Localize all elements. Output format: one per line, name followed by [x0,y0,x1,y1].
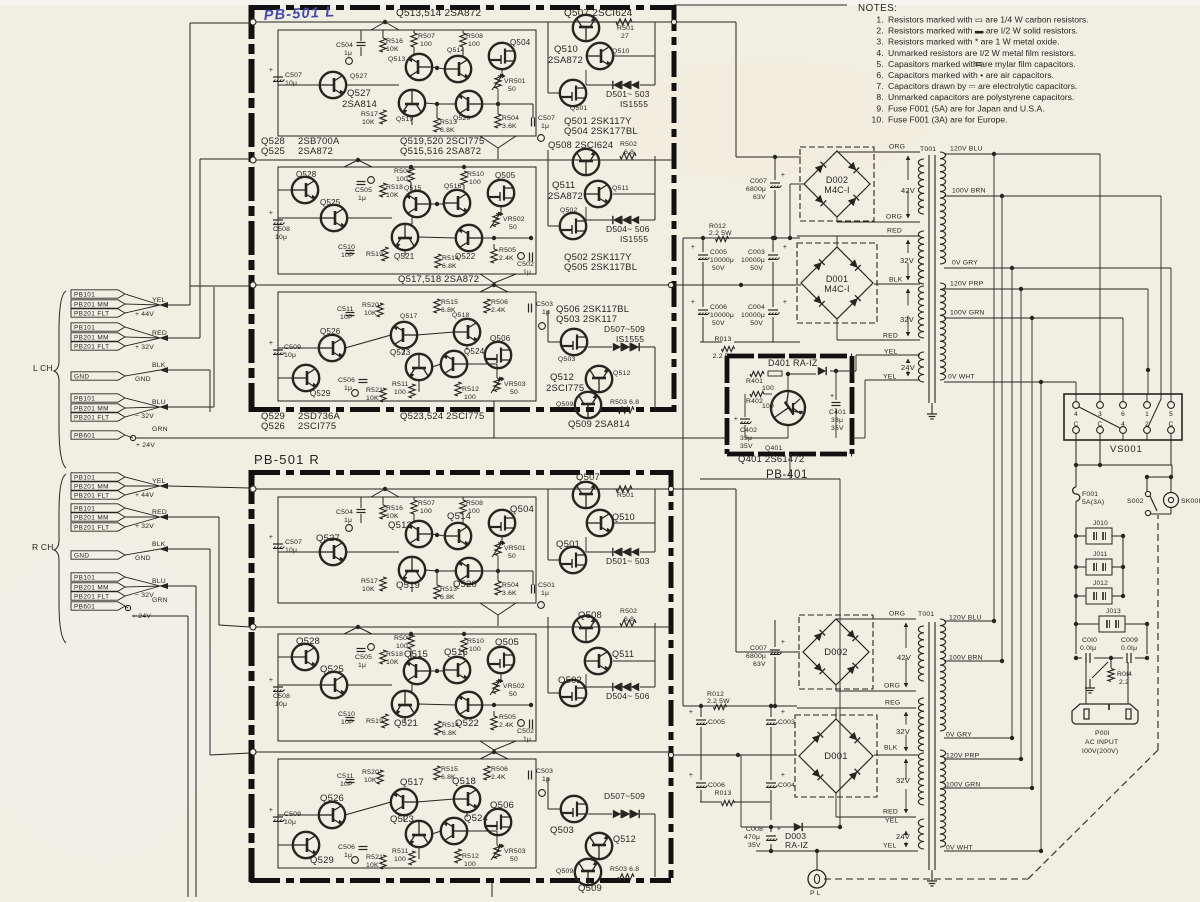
svg-text:R512: R512 [462,853,479,860]
svg-text:I00V(200V): I00V(200V) [1082,748,1118,755]
svg-text:2SA872: 2SA872 [548,55,583,66]
svg-text:YEL: YEL [883,374,896,381]
svg-text:YEL: YEL [885,818,898,825]
svg-text:VR503: VR503 [504,848,526,855]
svg-text:Q505: Q505 [495,171,516,180]
svg-text:Resistors marked with ▭ are 1/: Resistors marked with ▭ are 1/4 W carbon… [888,15,1089,25]
svg-text:50V: 50V [712,265,725,272]
svg-text:Q503: Q503 [558,356,575,363]
svg-text:10P: 10P [340,781,353,788]
svg-text:10000μ: 10000μ [741,312,765,319]
svg-text:+ 44V: + 44V [135,311,154,318]
svg-text:10K: 10K [386,46,399,53]
svg-text:R505: R505 [499,247,516,254]
svg-text:GND: GND [135,376,151,383]
svg-text:2.: 2. [876,26,884,36]
svg-text:1μ: 1μ [344,852,352,859]
svg-text:100: 100 [469,179,481,186]
svg-text:10K: 10K [362,119,375,126]
svg-text:2SCI775: 2SCI775 [298,421,336,432]
svg-text:R517: R517 [361,578,378,585]
svg-text:10μ: 10μ [285,80,297,87]
svg-text:PB201 MM: PB201 MM [74,302,109,309]
svg-text:100: 100 [396,176,408,183]
svg-text:+: + [269,534,273,541]
svg-text:+ 32V: + 32V [135,523,154,530]
svg-text:Q511: Q511 [612,649,634,659]
svg-text:10K: 10K [364,777,377,784]
svg-text:BLK: BLK [889,277,903,284]
svg-text:IS1555: IS1555 [620,234,648,244]
svg-text:PB201 FLT: PB201 FLT [74,594,109,601]
svg-text:R504: R504 [502,115,519,122]
svg-text:YEL: YEL [152,478,165,485]
svg-text:Q525: Q525 [261,146,285,157]
svg-text:R518: R518 [386,184,403,191]
svg-text:Q527: Q527 [350,73,367,80]
svg-text:D001: D001 [826,274,848,284]
svg-text:Q511: Q511 [612,185,629,192]
svg-text:D507~509: D507~509 [604,791,645,801]
svg-text:R507: R507 [418,500,435,507]
svg-text:PB201 MM: PB201 MM [74,406,109,413]
svg-text:PB201 MM: PB201 MM [74,515,109,522]
svg-text:D002: D002 [826,175,848,185]
svg-text:Q501: Q501 [556,539,580,550]
svg-text:Q529: Q529 [310,389,331,398]
svg-text:6.8K: 6.8K [442,263,457,270]
svg-text:100: 100 [464,394,476,401]
svg-text:C: C [1169,421,1174,428]
svg-text:0V WHT: 0V WHT [948,374,975,381]
svg-text:1μ: 1μ [542,309,550,316]
svg-text:PB-501 R: PB-501 R [254,452,320,467]
svg-text:D504~ 506: D504~ 506 [606,691,650,701]
svg-text:9.: 9. [876,103,884,113]
svg-text:BLK: BLK [152,541,166,548]
svg-text:GND: GND [74,553,89,560]
svg-text:Q512: Q512 [613,370,630,377]
svg-text:BLK: BLK [152,362,166,369]
svg-text:Q525: Q525 [320,664,344,675]
svg-text:5: 5 [1169,411,1173,418]
svg-text:C003: C003 [778,719,795,726]
svg-text:Q527: Q527 [347,88,371,99]
svg-text:R516: R516 [386,505,403,512]
svg-text:BLU: BLU [152,578,166,585]
svg-text:6.8K: 6.8K [440,127,455,134]
svg-text:PB101: PB101 [74,396,95,403]
svg-text:PB101: PB101 [74,292,95,299]
svg-text:R501: R501 [617,492,634,499]
svg-text:6800μ: 6800μ [746,186,766,193]
svg-text:5A(3A): 5A(3A) [1082,499,1104,506]
svg-text:+: + [830,393,834,400]
svg-text:R0I4: R0I4 [1117,671,1132,678]
svg-text:Q517: Q517 [400,313,417,320]
svg-text:BLK: BLK [884,745,898,752]
svg-text:RED: RED [883,809,898,816]
svg-text:D507~509: D507~509 [604,324,645,334]
svg-text:10μ: 10μ [275,701,287,708]
svg-text:10μ: 10μ [284,819,296,826]
svg-text:1μ: 1μ [523,736,531,743]
svg-text:J011: J011 [1093,551,1108,558]
svg-text:0.0Iμ: 0.0Iμ [1121,645,1137,652]
svg-text:RED: RED [152,330,167,337]
svg-text:32V: 32V [900,315,914,324]
svg-text:C507: C507 [538,115,555,122]
svg-text:10μ: 10μ [275,234,287,241]
svg-text:C505: C505 [355,654,372,661]
svg-text:ORG: ORG [884,683,900,690]
svg-text:C503: C503 [536,768,553,775]
svg-text:24V: 24V [896,832,910,841]
svg-text:R521: R521 [366,854,383,861]
svg-text:R520: R520 [362,302,379,309]
svg-text:RA-IZ: RA-IZ [785,840,808,850]
svg-text:1μ: 1μ [358,195,366,202]
svg-text:C003: C003 [748,249,765,256]
svg-text:6800μ: 6800μ [746,653,766,660]
svg-text:VS001: VS001 [1110,444,1143,455]
svg-text:C: C [1098,421,1103,428]
svg-text:6.: 6. [876,70,884,80]
svg-text:1μ: 1μ [344,517,352,524]
svg-text:R505: R505 [499,714,516,721]
svg-text:1μ: 1μ [541,590,549,597]
svg-text:Q510: Q510 [554,44,578,55]
svg-text:Q526: Q526 [320,327,341,336]
svg-text:T001: T001 [918,611,934,618]
svg-text:R520: R520 [362,769,379,776]
svg-text:C508: C508 [273,226,290,233]
svg-text:R517: R517 [361,111,378,118]
svg-text:R510: R510 [467,638,484,645]
svg-text:R503 6.8: R503 6.8 [610,866,639,873]
svg-text:Q515,516 2SA872: Q515,516 2SA872 [400,146,481,157]
svg-text:Capacitors marked with • are a: Capacitors marked with • are air capacit… [888,70,1054,80]
svg-text:+: + [691,299,695,306]
svg-text:10K: 10K [366,862,379,869]
svg-text:R504: R504 [502,582,519,589]
svg-text:10.: 10. [871,114,884,124]
svg-text:R509: R509 [394,635,411,642]
svg-text:Q521: Q521 [394,252,415,261]
svg-text:100V GRN: 100V GRN [946,782,980,789]
svg-text:1μ: 1μ [542,776,550,783]
svg-text:3.6K: 3.6K [502,590,517,597]
svg-text:C503: C503 [536,301,553,308]
svg-text:470μ: 470μ [744,834,760,841]
svg-text:Q503 2SK117: Q503 2SK117 [556,314,617,325]
svg-text:10000μ: 10000μ [710,257,734,264]
svg-text:50: 50 [510,389,518,396]
svg-text:Q523: Q523 [390,348,411,357]
svg-text:R502: R502 [620,608,637,615]
svg-text:100V GRN: 100V GRN [950,310,984,317]
svg-text:10K: 10K [364,310,377,317]
svg-text:R402: R402 [746,398,763,405]
svg-text:C510: C510 [338,711,355,718]
svg-text:D501~ 503: D501~ 503 [606,556,650,566]
svg-text:Q504: Q504 [510,504,534,515]
svg-text:100: 100 [394,856,406,863]
svg-text:100: 100 [394,389,406,396]
svg-text:10P: 10P [341,719,354,726]
svg-text:PB201 MM: PB201 MM [74,335,109,342]
svg-text:2SA872: 2SA872 [298,146,333,157]
svg-text:VR501: VR501 [504,545,526,552]
svg-text:Q508: Q508 [578,610,602,621]
svg-text:Unmarked capacitors are polyst: Unmarked capacitors are polystyrene capa… [888,92,1074,102]
svg-text:Q526: Q526 [261,421,285,432]
svg-text:Q512: Q512 [550,372,574,383]
svg-text:0V WHT: 0V WHT [946,845,973,852]
svg-text:R013: R013 [714,790,731,797]
svg-text:C007: C007 [750,178,767,185]
svg-text:50: 50 [509,224,517,231]
svg-text:10K: 10K [386,513,399,520]
svg-text:C: C [1074,421,1079,428]
svg-text:C505: C505 [355,187,372,194]
svg-text:R511: R511 [392,381,409,388]
svg-text:D002: D002 [824,647,848,658]
svg-text:R515: R515 [441,299,458,306]
svg-text:50: 50 [509,691,517,698]
svg-text:R502: R502 [620,141,637,148]
svg-text:1μ: 1μ [344,50,352,57]
svg-text:Q513,514 2SA872: Q513,514 2SA872 [396,8,482,19]
svg-text:S002: S002 [1127,498,1144,505]
svg-text:1μ: 1μ [344,385,352,392]
svg-text:VR503: VR503 [504,381,526,388]
svg-text:C401: C401 [829,409,846,416]
svg-text:50: 50 [510,856,518,863]
svg-text:Q505 2SK117BL: Q505 2SK117BL [564,262,637,273]
svg-text:6.8K: 6.8K [442,730,457,737]
svg-text:C005: C005 [708,719,725,726]
svg-text:R519: R519 [366,251,383,258]
svg-text:100: 100 [420,41,432,48]
svg-text:ORG: ORG [886,214,902,221]
svg-text:Q523: Q523 [390,814,414,825]
svg-text:100: 100 [468,41,480,48]
svg-text:Q508 2SCI624: Q508 2SCI624 [548,140,613,151]
svg-text:R514: R514 [442,255,459,262]
svg-text:+: + [781,639,785,646]
svg-text:10000μ: 10000μ [710,312,734,319]
svg-text:D401 RA-IZ: D401 RA-IZ [768,358,818,368]
svg-text:R514: R514 [442,722,459,729]
svg-text:1μ: 1μ [358,662,366,669]
svg-text:R519: R519 [366,718,383,725]
svg-text:3.6K: 3.6K [502,123,517,130]
svg-text:C005: C005 [710,249,727,256]
svg-text:R512: R512 [462,386,479,393]
svg-text:Q519: Q519 [396,580,420,591]
svg-text:Fuse F001 (5A) are for Japan a: Fuse F001 (5A) are for Japan and U.S.A. [888,103,1045,113]
svg-text:D504~ 506: D504~ 506 [606,224,650,234]
svg-text:BLU: BLU [152,399,166,406]
svg-text:Q510: Q510 [612,512,635,522]
svg-text:+: + [269,677,273,684]
svg-text:+: + [689,772,693,779]
svg-text:C507: C507 [285,72,302,79]
svg-text:Fuse F001 (3A) are for Europe.: Fuse F001 (3A) are for Europe. [888,114,1007,124]
svg-text:100: 100 [420,508,432,515]
svg-text:− 32V: − 32V [135,413,154,420]
svg-text:C507: C507 [285,539,302,546]
svg-text:Q514: Q514 [447,511,471,522]
svg-text:Capasitors marked with are m: Capasitors marked with are mylar film ca… [888,59,1076,69]
svg-text:PB201 MM: PB201 MM [74,585,109,592]
svg-text:63V: 63V [753,194,766,201]
svg-text:GRN: GRN [152,597,168,604]
svg-text:PB101: PB101 [74,475,95,482]
svg-text:Q527: Q527 [316,533,340,544]
svg-text:NOTES:: NOTES: [858,3,897,14]
svg-text:Q528: Q528 [296,636,320,647]
svg-text:R508: R508 [466,500,483,507]
svg-text:C501: C501 [538,582,555,589]
svg-text:Q523,524 2SCI775: Q523,524 2SCI775 [400,411,485,422]
svg-text:Q506: Q506 [490,800,514,811]
svg-text:PB601: PB601 [74,604,95,611]
svg-text:2.2 5W: 2.2 5W [709,230,732,237]
svg-text:+: + [734,416,738,423]
svg-text:Q505: Q505 [495,637,519,648]
svg-text:YEL: YEL [883,843,896,850]
svg-text:T001: T001 [920,146,936,153]
svg-text:Q514: Q514 [447,47,464,54]
svg-text:+ 24V: + 24V [136,442,155,449]
svg-text:50: 50 [508,86,516,93]
svg-text:1: 1 [1145,411,1149,418]
svg-text:R508: R508 [466,33,483,40]
svg-text:M4C-I: M4C-I [824,284,850,294]
svg-text:50V: 50V [750,320,763,327]
svg-text:1.: 1. [876,15,884,25]
svg-text:C510: C510 [338,244,355,251]
svg-text:REG: REG [885,700,900,707]
svg-text:R012: R012 [707,691,724,698]
svg-text:Q509: Q509 [556,868,573,875]
svg-text:120V PRP: 120V PRP [950,281,984,288]
svg-text:GND: GND [135,555,151,562]
svg-text:2.4K: 2.4K [491,307,506,314]
svg-text:C402: C402 [740,427,757,434]
svg-text:PB101: PB101 [74,575,95,582]
svg-text:+: + [781,772,785,779]
svg-text:0.0Iμ: 0.0Iμ [1080,645,1096,652]
svg-text:10P: 10P [341,252,354,259]
svg-text:R513: R513 [440,119,457,126]
svg-text:27: 27 [621,33,629,40]
svg-text:7.: 7. [876,81,884,91]
svg-text:J012: J012 [1093,580,1108,587]
svg-text:2.4K: 2.4K [491,774,506,781]
svg-text:IS1555: IS1555 [616,334,644,344]
svg-text:Q529: Q529 [310,855,334,866]
svg-text:AC INPUT: AC INPUT [1085,739,1118,746]
svg-text:+: + [689,709,693,716]
svg-text:GND: GND [74,374,89,381]
svg-text:RED: RED [887,228,902,235]
svg-text:P00I: P00I [1095,730,1110,737]
svg-text:10K: 10K [366,395,379,402]
svg-text:R501: R501 [617,25,634,32]
svg-text:35V: 35V [740,443,753,450]
svg-text:PB601: PB601 [74,433,95,440]
svg-text:Q509 2SA814: Q509 2SA814 [568,419,630,430]
svg-text:GRN: GRN [152,426,168,433]
svg-text:4.: 4. [876,48,884,58]
svg-text:3.: 3. [876,37,884,47]
svg-text:33μ: 33μ [740,435,752,442]
svg-text:R515: R515 [441,766,458,773]
svg-text:C006: C006 [708,782,725,789]
svg-text:50: 50 [508,553,516,560]
svg-text:6.8: 6.8 [624,149,634,156]
svg-text:R518: R518 [386,651,403,658]
svg-text:10μ: 10μ [285,547,297,554]
svg-text:0V GRY: 0V GRY [952,260,978,267]
svg-text:6.8: 6.8 [624,616,634,623]
svg-text:120V BLU: 120V BLU [950,146,983,153]
svg-text:Q525: Q525 [320,198,341,207]
svg-text:Q502: Q502 [558,675,582,686]
svg-text:RED: RED [883,333,898,340]
svg-text:Q507: Q507 [576,472,600,483]
svg-text:C506: C506 [338,844,355,851]
svg-text:Q503: Q503 [550,825,574,836]
svg-text:R507: R507 [418,33,435,40]
svg-text:R521: R521 [366,387,383,394]
svg-text:J010: J010 [1093,520,1108,527]
svg-text:10K: 10K [386,659,399,666]
svg-text:F001: F001 [1082,491,1098,498]
svg-text:Q504 2SK177BL: Q504 2SK177BL [564,126,638,137]
svg-text:P L: P L [810,890,821,897]
svg-text:Resistors marked with * are 1: Resistors marked with * are 1 W metal ox… [888,37,1059,47]
svg-text:YEL: YEL [152,297,165,304]
svg-text:C511: C511 [337,306,354,313]
svg-text:Unmarked resistors are I/2 W m: Unmarked resistors are I/2 W metal film … [888,48,1076,58]
svg-text:J013: J013 [1106,608,1121,615]
svg-text:100V BRN: 100V BRN [949,655,983,662]
svg-text:Q521: Q521 [394,718,418,729]
svg-text:PB101: PB101 [74,506,95,513]
svg-text:C0I0: C0I0 [1082,637,1097,644]
svg-text:Q513: Q513 [388,56,405,63]
svg-text:C502: C502 [517,728,534,735]
svg-text:Q510: Q510 [612,48,629,55]
svg-text:8.: 8. [876,92,884,102]
svg-text:Q517: Q517 [400,777,424,788]
svg-text:PB201 FLT: PB201 FLT [74,311,109,318]
svg-text:+: + [781,709,785,716]
svg-text:100: 100 [762,385,774,392]
svg-text:Q502: Q502 [560,207,577,214]
svg-text:VR502: VR502 [503,683,525,690]
svg-text:C508: C508 [273,693,290,700]
svg-text:R510: R510 [467,171,484,178]
svg-text:Q401: Q401 [765,445,782,452]
svg-text:Capacitors drawn by ⎓ are elec: Capacitors drawn by ⎓ are electrolytic c… [888,81,1077,91]
svg-text:1μ: 1μ [541,123,549,130]
svg-text:PB101: PB101 [74,325,95,332]
